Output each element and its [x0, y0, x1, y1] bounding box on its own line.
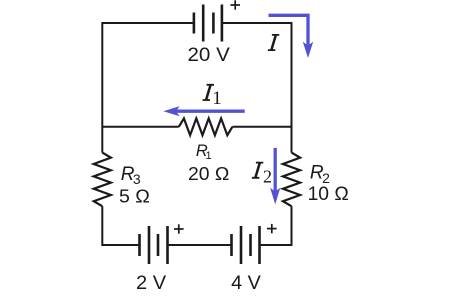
- wire top-left segment: [102, 22, 193, 24]
- resistor R3 zigzag: [94, 153, 111, 207]
- current I1 label: [203, 84, 214, 101]
- resistor R1 zigzag: [179, 118, 233, 135]
- wire bottom-middle segment: [168, 244, 232, 246]
- battery V1 plus sign: [230, 0, 240, 9]
- svg-text:20 Ω: 20 Ω: [188, 164, 229, 184]
- svg-text:5 Ω: 5 Ω: [119, 185, 150, 206]
- wire bottom-right segment: [260, 244, 292, 246]
- current arrow I1: [176, 110, 245, 113]
- svg-text:2: 2: [263, 167, 272, 187]
- wire middle left segment: [102, 126, 179, 128]
- wire right side lower: [291, 206, 293, 246]
- svg-text:4 V: 4 V: [231, 273, 261, 294]
- battery V3 plus sign: [267, 224, 277, 233]
- current I2 label: [252, 162, 263, 179]
- svg-text:10 Ω: 10 Ω: [308, 184, 349, 205]
- svg-text:1: 1: [206, 150, 212, 162]
- svg-text:2 V: 2 V: [136, 273, 167, 294]
- wire right side upper: [291, 22, 293, 153]
- svg-text:20 V: 20 V: [188, 45, 231, 66]
- resistor R2 zigzag: [283, 153, 300, 207]
- battery V2 plus sign: [174, 224, 184, 233]
- current arrow I: [269, 15, 309, 46]
- current arrow I2: [274, 148, 277, 192]
- wire middle right segment: [232, 126, 291, 128]
- wire left side lower: [101, 206, 103, 246]
- battery V2 2V plates: [140, 226, 168, 264]
- svg-text:1: 1: [212, 88, 222, 109]
- wire bottom-left segment: [102, 244, 139, 246]
- current I label: [268, 34, 279, 51]
- wire top-right segment: [222, 22, 292, 24]
- battery V3 4V plates: [232, 226, 260, 264]
- battery V1 20V plates: [194, 5, 222, 42]
- wire left side upper: [101, 22, 103, 153]
